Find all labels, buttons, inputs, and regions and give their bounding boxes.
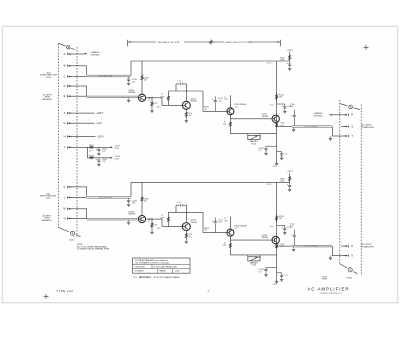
decouple capacitor right of column (upper) (277, 103, 285, 105)
wire pin N (79, 217, 87, 219)
svg-text:N: N (64, 216, 66, 220)
collector stub of Q1114 (229, 95, 231, 108)
ground of decoupling column (upper) (288, 67, 291, 69)
transistor Q1114 (227, 108, 234, 115)
svg-text:C: C (64, 74, 66, 78)
gain adjust potentiometer (247, 134, 249, 138)
wire pin A to chassis ground label (79, 53, 85, 55)
decoupling resistor R1191 (87, 146, 95, 148)
signal wire Q1104 emitter to Q1113 base (161, 98, 163, 106)
wire pin M to second lower pair (79, 208, 87, 210)
collector resistor of Q1224 (276, 214, 278, 223)
channel ground at column bottom (upper) (275, 162, 278, 164)
emitter resistor of Q1124 (276, 123, 278, 128)
gain adjust potentiometer (247, 255, 249, 259)
shield to +bus riser (130, 61, 132, 75)
svg-text:2N2048: 2N2048 (191, 101, 197, 103)
emitter network of Q1204 (152, 218, 162, 220)
interconnecting plug dashed line (outer) (57, 44, 59, 228)
centre fold cross (209, 41, 214, 43)
svg-text:VOLTAGES: VOLTAGES (135, 270, 145, 273)
svg-text:+225 V: +225 V (266, 184, 273, 186)
transistor Q1104 (138, 94, 145, 101)
svg-text:PLUG: PLUG (46, 198, 51, 200)
ground at shield end (127, 82, 130, 84)
output jack top right (340, 104, 348, 106)
feedback line to Q1124 emitter (230, 133, 276, 135)
input jack J101 (top left) (58, 43, 65, 46)
svg-text:+225 V: +225 V (266, 63, 273, 65)
svg-text:V: V (351, 254, 353, 258)
output wire from emitter (upper) (277, 126, 292, 128)
svg-text:SHIELDED PAIR: SHIELDED PAIR (99, 75, 113, 78)
wire pin K to shielded pair (79, 186, 87, 188)
svg-text:C .05: C .05 (283, 154, 287, 156)
emitter bypass network (upper) (266, 145, 277, 147)
wire pin L (79, 196, 87, 198)
svg-text:TO CHASSIS GND AT TERMINAL STR: TO CHASSIS GND AT TERMINAL STRIP. (77, 248, 110, 251)
svg-text:DCL: DCL (134, 277, 137, 279)
wire Q1214 emitter to Q1224 base (230, 239, 272, 241)
cable shield ground (lower) (293, 247, 295, 249)
registration cross bottom-left (44, 296, 49, 298)
svg-text:6.25: 6.25 (102, 151, 105, 153)
decoupling resistor R1192 (87, 157, 95, 159)
+225V decoupled bus (lower channel) (131, 181, 290, 183)
cable shield ground (upper) (293, 127, 295, 129)
svg-text:SEE PARTS LIST FOR: SEE PARTS LIST FOR (158, 41, 180, 44)
top note/dimension line (128, 41, 157, 43)
svg-text:R1191: R1191 (89, 145, 94, 147)
svg-text:TYPE 122: TYPE 122 (56, 289, 73, 293)
transistor Q1224 (272, 236, 279, 243)
wire pin G (79, 122, 95, 124)
coupling capacitor on interstage line (214, 102, 216, 111)
decoupling branch 1 wire and arrow (96, 146, 111, 148)
ground Q1113 emitter (185, 120, 188, 122)
+225V decoupled bus (upper channel) (131, 60, 290, 62)
svg-text:J1202: J1202 (69, 240, 74, 242)
transistor Q1124 (272, 115, 279, 122)
svg-text:.001: .001 (132, 81, 135, 83)
interconnecting plug dashed line (inner) (76, 47, 78, 237)
wire pin D to second pair (79, 85, 87, 87)
output wire from emitter (lower) (277, 245, 292, 247)
svg-text:NOTE ON TOLERANCE CHANGE: NOTE ON TOLERANCE CHANGE (154, 276, 181, 279)
emitter resistor of Q1213 (185, 231, 187, 241)
svg-text:R1145: R1145 (280, 57, 285, 59)
emitter column of Q1214 (229, 236, 231, 255)
feedback line to Q1224 emitter (230, 254, 276, 256)
svg-text:TO AMPLIFIER: TO AMPLIFIER (362, 246, 375, 249)
output pin row 1 (lower) (341, 245, 348, 247)
wire pin E (79, 95, 87, 97)
svg-text:AMPHENOL: AMPHENOL (42, 219, 52, 222)
svg-text:DCPL: DCPL (115, 158, 120, 160)
ground C1192 (97, 163, 100, 165)
decouple capacitor right of column (lower) (277, 224, 285, 226)
feedback loop rectangle with C at Q1113 (175, 84, 177, 91)
svg-text:R: R (351, 113, 353, 117)
svg-text:AC AMPLIFIER: AC AMPLIFIER (308, 286, 350, 291)
lower shield riser to bus (130, 182, 132, 196)
output shielded cable (upper) (292, 126, 332, 128)
svg-text:B: B (64, 64, 66, 68)
registration cross top-right (364, 46, 369, 48)
svg-text:2N2048: 2N2048 (262, 116, 268, 118)
svg-text:U: U (351, 244, 353, 248)
wire pin C (79, 76, 87, 78)
svg-text:STRIP: STRIP (322, 279, 328, 281)
emitter arrow of Q1104 (146, 97, 152, 99)
transistor Q1204 (138, 216, 145, 223)
capacitor at lower shield end (128, 198, 130, 200)
cable branch to second pin (upper) (331, 127, 333, 137)
coupling capacitor on interstage line (214, 224, 216, 233)
svg-text:CIRCUIT NO.: CIRCUIT NO. (135, 266, 146, 268)
svg-text:-1.9: -1.9 (234, 228, 237, 230)
collector line of Q1113 to loop (168, 90, 203, 92)
svg-text:SHIELDED PAIR: SHIELDED PAIR (99, 196, 113, 199)
svg-text:2N2048: 2N2048 (191, 222, 197, 224)
title block box (133, 258, 191, 273)
svg-text:C 4.7: C 4.7 (177, 202, 181, 204)
supply column from bus to ground (upper) (276, 61, 278, 163)
svg-text:E: E (64, 94, 66, 98)
output plug dashed line (outer) (360, 105, 362, 277)
pin chassis ground (top) (341, 114, 348, 116)
svg-text:OUTPUT CABLE: OUTPUT CABLE (304, 125, 318, 128)
svg-text:PLUG: PLUG (46, 77, 51, 79)
output pin row 2 (lower) (341, 255, 348, 257)
svg-text:M: M (63, 207, 65, 211)
signal wire Q1204 emitter to Q1213 base (161, 219, 163, 227)
svg-text:TO AMPLIFIER: TO AMPLIFIER (362, 126, 375, 129)
svg-text:.001: .001 (132, 203, 135, 205)
cable branch to second pin (lower) (331, 246, 333, 256)
output pin row 2 (upper) (341, 135, 348, 137)
svg-text:C .05: C .05 (283, 275, 287, 277)
collector load resistor R of Q1104 (141, 61, 143, 94)
ground Q1213 emitter (185, 241, 188, 243)
branch ground (lower) (329, 256, 331, 258)
wire pin H (79, 135, 96, 137)
shielded input pair (lower channel B) (87, 218, 138, 220)
second bypass capacitor (upper) (277, 151, 282, 153)
collector stub of Q1214 (229, 217, 231, 230)
svg-text:K: K (64, 185, 66, 189)
wire pin B to shielded pair (79, 65, 87, 67)
emitter resistor of Q1113 (185, 109, 187, 119)
svg-text:WORKS & MODELS A 1 2 3: WORKS & MODELS A 1 2 3 (321, 292, 342, 295)
channel ground at column bottom (lower) (275, 281, 278, 283)
decoupling branch 2 wire and arrow (96, 157, 111, 159)
svg-text:GROUND: GROUND (314, 115, 324, 117)
svg-text:(+4.2): (+4.2) (270, 226, 275, 228)
bypass capacitor C1192 (98, 158, 100, 160)
wire pin F (79, 112, 95, 114)
bypass capacitor C1191 (98, 147, 100, 149)
svg-text:R 500: R 500 (252, 265, 257, 267)
svg-text:-150 V: -150 V (97, 136, 104, 138)
emitter column of Q1114 (229, 115, 231, 134)
svg-text:R1192: R1192 (89, 155, 94, 157)
transistor Q1213 (182, 223, 190, 231)
svg-text:R1145: R1145 (280, 179, 285, 181)
svg-text:2N2048: 2N2048 (128, 214, 135, 216)
collector line of Q1213 to loop (168, 211, 203, 213)
title block inner lines (133, 263, 191, 265)
svg-text:D: D (64, 84, 66, 88)
ground at lower second shield end (128, 220, 130, 222)
ground C1191 (97, 152, 100, 154)
svg-text:+225 V: +225 V (96, 113, 104, 115)
output plug dashed line (inner) (339, 100, 341, 264)
base bias resistor at Q1113 (167, 91, 169, 105)
shielded input pair (upper channel B) (87, 96, 139, 98)
emitter network of Q1104 (152, 97, 162, 99)
output jack bottom right (340, 264, 347, 268)
svg-text:SEMICONDUCTOR TYPES: SEMICONDUCTOR TYPES (226, 42, 253, 44)
svg-text:OUTPUT CABLE: OUTPUT CABLE (304, 245, 318, 248)
ground at lower shield end (127, 204, 130, 206)
capacitor at shield end (128, 77, 130, 79)
shielded input pair (upper channel A) (87, 75, 131, 77)
svg-text:(+4.2): (+4.2) (270, 105, 275, 107)
svg-text:S: S (351, 124, 353, 128)
collector load resistor R of Q1204 (141, 182, 143, 215)
svg-text:IMPORTANT:: IMPORTANT: (139, 276, 152, 279)
emitter resistor of Q1224 (276, 244, 278, 249)
svg-text:2N2048: 2N2048 (262, 237, 268, 239)
ground at second shield end (128, 98, 130, 100)
wire Q1114 emitter to Q1124 base (230, 118, 272, 120)
svg-text:P1202: P1202 (347, 278, 352, 280)
feedback loop rectangle with C at Q1213 (175, 205, 177, 212)
emitter arrow of Q1204 (146, 218, 152, 220)
chassis ground wire with arrow (331, 114, 342, 116)
wire pin J to decoupling network (79, 146, 88, 148)
emitter bypass network (lower) (266, 267, 277, 269)
svg-text:R 500: R 500 (252, 143, 257, 145)
svg-text:-8.2: -8.2 (189, 115, 192, 117)
ground of decoupling column (lower) (288, 189, 291, 191)
svg-text:with TOLERANCE CONTROL at: with TOLERANCE CONTROL at mid-range. (135, 262, 170, 265)
svg-text:GROUND: GROUND (91, 55, 101, 57)
branch ground (upper) (329, 136, 331, 138)
collector resistor of Q1124 (276, 93, 278, 102)
wire Q1213 collector to Q1214 base (202, 212, 204, 232)
svg-text:H: H (64, 134, 66, 138)
svg-text:DCPL: DCPL (115, 148, 120, 150)
svg-text:C 4.7: C 4.7 (177, 81, 181, 83)
svg-text:2N2048: 2N2048 (128, 92, 135, 94)
output shielded cable (lower) (292, 245, 332, 247)
svg-text:6.25: 6.25 (102, 161, 105, 163)
transistor Q1214 (227, 229, 234, 236)
svg-text:RANGE: RANGE (160, 270, 167, 273)
svg-text:+225 V: +225 V (287, 50, 294, 52)
output pin row 1 (upper) (341, 126, 348, 128)
svg-text:-1.9: -1.9 (234, 106, 237, 108)
supply column from bus to ground (lower) (276, 182, 278, 281)
shielded input pair (lower channel A) (87, 197, 131, 199)
svg-text:-8.2: -8.2 (189, 236, 192, 238)
base bias resistor at Q1213 (167, 212, 169, 226)
svg-text:+225 V: +225 V (287, 171, 294, 173)
svg-text:AMPHENOL: AMPHENOL (43, 98, 53, 101)
svg-text:G: G (63, 121, 65, 125)
svg-text:+12 V: +12 V (96, 123, 102, 125)
transistor Q1113 (182, 101, 190, 109)
second bypass capacitor (lower) (277, 272, 282, 274)
svg-text:±10%: ±10% (175, 271, 180, 273)
input jack J1202 (bottom left) (58, 228, 69, 232)
wire Q1113 collector to Q1114 base (202, 91, 204, 111)
svg-text:A: A (64, 52, 66, 56)
